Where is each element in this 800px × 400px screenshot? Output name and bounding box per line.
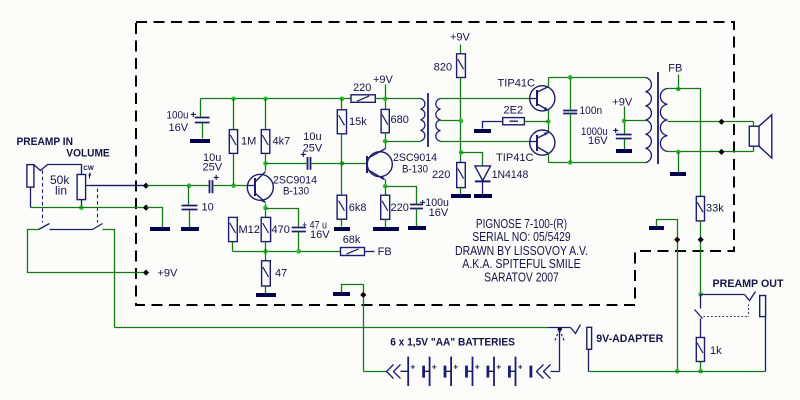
wire +9V preamp rail: [201, 98, 351, 100]
wire 220 right lead to +9V node: [376, 98, 386, 100]
resistor 15k: [337, 110, 346, 134]
transformer T1 core: [427, 93, 429, 147]
svg-text:1M: 1M: [241, 136, 256, 148]
svg-text:33k: 33k: [706, 203, 724, 215]
wire +9V to center tap and 1000u: [624, 107, 626, 135]
transformer T1 secondary winding: [436, 99, 441, 142]
svg-text:+9V: +9V: [612, 96, 633, 108]
transformer T2 core: [657, 72, 659, 164]
wire cap 10 upper lead: [188, 186, 190, 205]
wire 820 bottom through center tap to 220: [460, 78, 462, 163]
wire Q3 collector to top rail: [548, 78, 550, 87]
transistor Q3 collector lead: [537, 87, 549, 93]
capacitor 10u 25V input coupling: [210, 180, 213, 193]
svg-text:220: 220: [353, 82, 371, 94]
ground internal signal: [649, 226, 664, 230]
wire base node to 6k8: [341, 164, 343, 196]
wire switch left to +9V feed: [28, 230, 147, 273]
switch linkage dashed from pot: [97, 189, 99, 223]
node Q2 base: [340, 161, 345, 166]
wire adapter tip line: [549, 327, 571, 329]
power switch contact arm right: [93, 224, 103, 230]
svg-text:15k: 15k: [349, 116, 367, 128]
svg-text:10u: 10u: [303, 131, 321, 143]
wire 4k7 top: [265, 99, 267, 130]
node Q1 collector: [263, 161, 268, 166]
adapter jack tip contact: [571, 325, 581, 334]
wire Q1 emitter to node: [265, 204, 267, 218]
input jack J1 tip contact: [34, 165, 82, 175]
resistor 4k7: [261, 130, 270, 154]
node bias lower: [459, 150, 464, 155]
ground 1000u: [616, 149, 632, 153]
ground cap 10: [181, 227, 199, 231]
wire cap to Q1 base: [213, 185, 248, 187]
preamp out jack tip contact: [745, 292, 756, 301]
node rail 4k7: [263, 97, 268, 102]
svg-text:9V-ADAPTER: 9V-ADAPTER: [596, 333, 663, 345]
svg-text:B-130: B-130: [283, 186, 309, 198]
wire battery positive riser: [551, 330, 560, 372]
node midpoint: [546, 119, 551, 124]
wire base node to Q2: [342, 163, 368, 165]
svg-text:6k8: 6k8: [349, 202, 367, 214]
svg-text:820: 820: [434, 61, 452, 73]
node Q1 emitter: [263, 206, 268, 211]
svg-text:+: +: [613, 126, 619, 137]
diode 1N4148: [475, 166, 491, 181]
svg-text:470: 470: [272, 224, 290, 236]
wire emitter node to 47u: [266, 209, 299, 227]
svg-text:+: +: [496, 362, 501, 372]
svg-text:+: +: [213, 173, 219, 184]
wire 6k8 to ground: [341, 220, 343, 227]
ground 220 bias: [451, 194, 471, 198]
wire speaker stub bottom: [753, 147, 755, 152]
wire 2E2 left to ground: [483, 122, 503, 129]
resistor 1k: [696, 338, 704, 362]
adapter jack body: [587, 327, 592, 349]
wire 1M bottom to base: [233, 154, 235, 186]
transistor Q3 TIP41C circle: [530, 86, 555, 111]
capacitor 10: [182, 206, 198, 210]
wire power feed line: [115, 327, 549, 329]
wire FB stub: [678, 75, 680, 89]
ground 220 Q2: [373, 227, 399, 231]
node center tap bias: [459, 119, 464, 124]
svg-text:1N4148: 1N4148: [492, 169, 529, 181]
svg-text:680: 680: [391, 114, 409, 126]
node 680 top: [383, 97, 388, 102]
node ground terminal: [143, 205, 149, 211]
node rail 15k: [340, 97, 345, 102]
resistor 220 Q2 emitter: [381, 195, 390, 219]
wire T1 secondary top tap to TIP base: [441, 98, 530, 100]
wire 15k top: [341, 99, 343, 110]
wire emitter to 100u cap: [386, 187, 417, 205]
wire switch to 1k: [700, 319, 702, 338]
svg-text:100u: 100u: [167, 109, 189, 121]
transistor Q4 collector lead: [537, 147, 549, 154]
wire 68k to FB label: [365, 251, 375, 253]
transistor Q1 emitter lead: [255, 193, 266, 203]
node speaker terminal bottom: [718, 149, 724, 155]
wire adapter sleeve to ground rail: [588, 350, 590, 372]
svg-text:68k: 68k: [343, 234, 361, 246]
node cap 10 junction: [187, 183, 192, 188]
transistor Q4 emitter lead: [537, 133, 549, 139]
capacitor 100u 16V emitter bypass Q2: [410, 205, 423, 209]
transistor Q2 base bar: [366, 156, 368, 173]
svg-text:PREAMP OUT: PREAMP OUT: [713, 278, 784, 290]
svg-text:PREAMP IN: PREAMP IN: [17, 136, 74, 148]
node battery ground border crossing: [360, 292, 366, 298]
resistor 680: [381, 109, 389, 132]
svg-text:6 x 1,5V "AA" BATTERIES: 6 x 1,5V "AA" BATTERIES: [390, 336, 515, 348]
svg-text:16V: 16V: [310, 229, 330, 241]
ground 100u Q2: [408, 226, 426, 230]
wire 470 bottom: [265, 242, 267, 252]
node 100n bottom: [568, 160, 573, 165]
wire 100n top lead: [570, 78, 572, 111]
wire diode to ground: [482, 182, 484, 195]
svg-text:16V: 16V: [429, 207, 449, 219]
wire 1M top: [233, 99, 235, 130]
node hook border crossing: [674, 237, 680, 243]
input jack J1 sleeve wire: [30, 188, 32, 208]
svg-text:4k7: 4k7: [273, 136, 291, 148]
svg-text:16V: 16V: [169, 122, 189, 134]
wire T1 secondary bottom tap to TIP base: [441, 141, 530, 143]
svg-text:+: +: [475, 362, 480, 372]
svg-text:VOLUME: VOLUME: [66, 148, 109, 160]
wire rail corner to 100u: [200, 99, 202, 117]
node base line junction: [231, 183, 236, 188]
wire bottom ground rail: [589, 371, 766, 373]
svg-text:M12: M12: [239, 224, 260, 236]
svg-text:+: +: [432, 362, 437, 372]
svg-text:+: +: [453, 362, 458, 372]
node 33k border crossing: [698, 237, 704, 243]
transistor Q4 TIP41C circle: [530, 130, 555, 155]
speaker: [749, 126, 759, 146]
potentiometer wiper arrow: [91, 185, 147, 187]
wire Q4 collector to bottom rail: [548, 154, 550, 163]
wire ground line into chassis: [147, 208, 163, 228]
svg-text:lin: lin: [55, 184, 67, 198]
ground diode: [474, 194, 492, 198]
battery connector chevrons left: [387, 365, 394, 379]
node 47u bottom: [297, 249, 302, 254]
resistor 33k: [696, 196, 704, 221]
resistor 6k8: [337, 195, 347, 219]
preamp out jack sleeve: [760, 296, 766, 317]
wire Q3 emitter to midpoint node: [548, 110, 550, 133]
battery 6 cells: [400, 370, 515, 372]
capacitor 10u 25V interstage: [308, 157, 311, 170]
svg-text:47: 47: [275, 268, 287, 280]
wire T1 primary top tap: [386, 98, 421, 100]
node 100n top: [568, 75, 573, 80]
resistor 47: [262, 261, 271, 286]
wire 1000u to ground: [624, 139, 626, 150]
resistor 68k feedback: [341, 248, 365, 256]
node 1k ground junction: [698, 369, 703, 374]
svg-text:SARATOV 2007: SARATOV 2007: [484, 270, 559, 285]
wire T1 secondary center tap: [441, 120, 461, 122]
resistor 1M: [229, 130, 237, 154]
wire +9V down through 680 top node: [385, 85, 387, 110]
transistor Q3 emitter lead: [537, 104, 549, 111]
transistor Q4 base bar: [536, 135, 538, 151]
transformer T2 primary winding: [646, 78, 652, 163]
amplifier chassis dashed border: [136, 22, 734, 305]
svg-text:16V: 16V: [588, 135, 608, 147]
resistor M12: [229, 217, 238, 241]
battery spring contact: [557, 327, 562, 332]
wire 47u bottom: [298, 232, 300, 252]
power switch contact arm left: [39, 224, 50, 230]
resistor 470: [261, 217, 270, 241]
svg-text:25V: 25V: [203, 162, 223, 174]
wire internal ground hook: [657, 220, 678, 372]
svg-text:FB: FB: [668, 63, 682, 75]
svg-text:1k: 1k: [710, 345, 722, 357]
wire secondary top tap to 33k: [668, 89, 701, 197]
wire bottom node rail: [233, 251, 341, 253]
wire preamp out sleeve down: [765, 317, 767, 372]
transistor Q1 base bar: [254, 178, 256, 196]
capacitor 100n across primary: [563, 111, 577, 114]
resistor 820: [457, 54, 466, 78]
transistor Q2 emitter lead: [368, 170, 385, 180]
node pot bottom: [79, 205, 84, 210]
node secondary ground tap: [676, 150, 681, 155]
preamp out jack switch linkage dotted: [704, 316, 749, 318]
wire M12 bottom to bottom rail: [232, 242, 234, 252]
svg-text:+9V: +9V: [450, 31, 471, 43]
capacitor 1000u 16V supply: [616, 135, 632, 139]
wire bottom rail to output transformer: [549, 162, 646, 164]
wire speaker stub top: [753, 122, 755, 127]
wire 680 bottom to collector node: [385, 133, 387, 149]
wire bias node to diode: [461, 153, 483, 166]
svg-text:+: +: [410, 362, 415, 372]
ground secondary: [670, 172, 686, 176]
ground 2E2: [474, 129, 491, 133]
potentiometer 50k lin body: [77, 175, 86, 200]
resistor 220 supply dropper: [351, 95, 375, 103]
wire to resistor 47: [265, 252, 267, 261]
power switch fixed rail: [50, 229, 93, 231]
svg-text:+9V: +9V: [373, 74, 394, 86]
wire secondary mid tap to speaker: [668, 121, 754, 123]
CW direction arrow: [89, 174, 91, 179]
battery connector chevrons right: [537, 365, 544, 379]
transistor Q1 collector lead: [255, 172, 266, 183]
ground 47: [256, 293, 276, 297]
preamp out switch stub: [700, 295, 702, 309]
node 470 bottom: [263, 249, 268, 254]
wire 220 to ground: [385, 220, 387, 228]
transformer T1 primary winding: [421, 99, 425, 141]
svg-text:+9V: +9V: [158, 268, 179, 280]
svg-text:100n: 100n: [580, 105, 603, 117]
transformer T2 secondary winding: [660, 89, 667, 152]
wire battery ground hook: [342, 285, 364, 372]
transistor Q2 collector lead: [368, 149, 386, 159]
wire 33k down across border: [700, 221, 702, 295]
wire wiper to coupling cap (outside chassis): [86, 185, 147, 187]
ground 6k8: [334, 227, 350, 231]
wire 15k bottom: [341, 134, 343, 164]
preamp out switch arm: [695, 310, 703, 319]
input jack J1 sleeve: [27, 165, 34, 188]
wire T1 primary bottom tap: [386, 141, 421, 143]
wire cap 10 lower lead: [189, 211, 191, 228]
node input terminal: [143, 183, 149, 189]
wire battery rail left: [364, 371, 387, 373]
svg-text:TIP41C: TIP41C: [496, 152, 534, 164]
node ground rail junction: [675, 369, 680, 374]
wire Q2 emitter down: [385, 180, 387, 196]
transistor Q1 2SC9014 B-130 circle: [247, 174, 273, 200]
wire switch right down to battery line: [103, 230, 115, 328]
wire preamp out tip line: [701, 294, 745, 296]
node FB tap: [676, 87, 681, 92]
node Q2 collector: [383, 139, 388, 144]
transistor Q2 2SC9014 B-130 circle: [367, 152, 392, 177]
wire 47 to ground: [265, 287, 267, 294]
svg-text:+: +: [190, 110, 196, 121]
wire pot bottom to ground bus: [81, 200, 83, 208]
svg-text:10: 10: [202, 201, 214, 213]
capacitor 47u 16V emitter bypass: [292, 228, 306, 232]
svg-text:FB: FB: [378, 246, 392, 258]
wire 4k7 bottom to collector node: [265, 154, 267, 171]
wire center tap to primary: [625, 120, 646, 122]
node Q2 emitter: [383, 184, 388, 189]
wire 100u Q2 to ground: [416, 209, 418, 227]
svg-text:220: 220: [391, 202, 409, 214]
node +9V chassis terminal: [143, 270, 149, 276]
wire top rail to output transformer: [549, 77, 646, 79]
wire input signal line: [147, 185, 209, 187]
node center tap: [622, 119, 627, 124]
svg-text:+: +: [518, 362, 523, 372]
svg-text:2SC9014: 2SC9014: [393, 152, 437, 164]
svg-text:B-130: B-130: [402, 164, 428, 176]
wire 100u to ground: [202, 123, 204, 139]
wire 220 bias to ground: [460, 188, 462, 195]
node speaker terminal top: [718, 119, 724, 125]
capacitor 100u 16V rail decoupling: [195, 118, 210, 123]
resistor 220 bias: [457, 163, 466, 188]
wire ground line from jack: [31, 207, 147, 209]
wire 2E2 right to midpoint: [525, 121, 549, 123]
wire 100n bottom lead: [570, 114, 572, 163]
wire 1k to ground rail: [700, 362, 702, 372]
svg-text:CW: CW: [83, 165, 93, 172]
wire secondary to ground: [678, 152, 680, 173]
svg-text:2E2: 2E2: [504, 105, 524, 117]
wire interstage cap to Q2 base node: [311, 163, 342, 165]
wire +9V to 820: [460, 45, 462, 54]
node preamp out tap: [698, 292, 703, 297]
svg-text:220: 220: [432, 169, 450, 181]
wire collector to interstage cap: [266, 163, 308, 165]
resistor 2E2: [503, 118, 525, 125]
ground 100u: [190, 139, 210, 143]
node rail 1M: [231, 97, 236, 102]
ground battery negative: [333, 292, 350, 296]
switch linkage dashed from jack: [42, 171, 44, 223]
svg-text:25V: 25V: [303, 142, 323, 154]
wire secondary bottom tap to speaker: [668, 151, 754, 153]
transistor Q3 base bar: [536, 90, 538, 106]
svg-text:TIP41C: TIP41C: [498, 78, 536, 90]
ground input: [150, 227, 170, 231]
